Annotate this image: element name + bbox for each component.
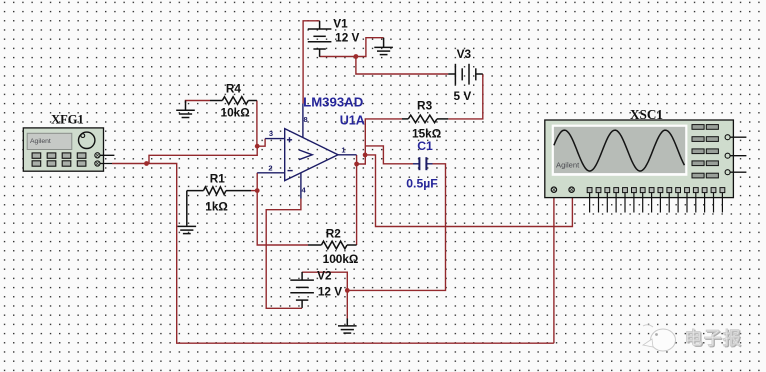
svg-text:R4: R4	[226, 82, 242, 96]
svg-text:V2: V2	[317, 268, 332, 282]
svg-text:V1: V1	[333, 17, 348, 31]
svg-text:LM393AD: LM393AD	[303, 94, 363, 109]
svg-text:0.5µF: 0.5µF	[406, 176, 437, 190]
svg-text:Agilent: Agilent	[30, 138, 51, 145]
svg-text:电子报: 电子报	[684, 328, 742, 349]
svg-text:1kΩ: 1kΩ	[205, 199, 228, 213]
svg-text:XFG1: XFG1	[51, 112, 84, 126]
svg-text:V3: V3	[457, 47, 472, 61]
svg-text:5 V: 5 V	[454, 89, 472, 103]
svg-text:3: 3	[269, 129, 273, 138]
svg-text:R3: R3	[417, 99, 433, 113]
svg-text:Agilent: Agilent	[556, 161, 580, 170]
svg-text:1: 1	[341, 145, 345, 154]
svg-text:12 V: 12 V	[335, 30, 359, 44]
svg-text:R1: R1	[210, 172, 226, 186]
svg-text:12 V: 12 V	[318, 284, 342, 298]
svg-text:XSC1: XSC1	[630, 107, 663, 122]
svg-text:R2: R2	[326, 227, 342, 241]
svg-text:100kΩ: 100kΩ	[323, 252, 359, 266]
svg-text:10kΩ: 10kΩ	[221, 106, 250, 120]
svg-text:8: 8	[304, 115, 308, 124]
svg-text:2: 2	[268, 163, 272, 172]
svg-text:U1A: U1A	[340, 113, 365, 127]
svg-text:C1: C1	[417, 139, 433, 153]
